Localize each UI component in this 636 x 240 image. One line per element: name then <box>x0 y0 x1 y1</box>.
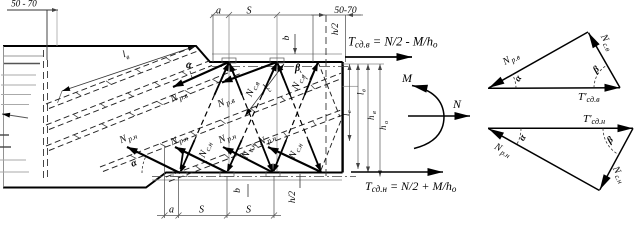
svg-text:a: a <box>169 205 174 216</box>
svg-text:S: S <box>247 6 252 17</box>
svg-text:h/2: h/2 <box>331 23 341 35</box>
svg-text:h: h <box>366 115 376 120</box>
svg-text:50-70: 50-70 <box>334 6 356 16</box>
svg-text:h/2: h/2 <box>288 191 298 203</box>
svg-text:b: b <box>233 188 243 193</box>
svg-text:N: N <box>452 97 462 111</box>
svg-text:в: в <box>361 89 368 92</box>
svg-text:h: h <box>378 125 388 130</box>
svg-text:a: a <box>216 6 221 17</box>
svg-text:M: M <box>401 71 413 85</box>
svg-text:b: b <box>282 35 292 40</box>
svg-text:с: с <box>346 110 353 113</box>
svg-text:S: S <box>246 205 251 216</box>
svg-text:β: β <box>294 63 301 74</box>
svg-text:в: в <box>371 111 378 114</box>
svg-text:α: α <box>186 60 192 71</box>
svg-text:S: S <box>199 205 204 216</box>
svg-text:50 - 70: 50 - 70 <box>11 0 37 9</box>
